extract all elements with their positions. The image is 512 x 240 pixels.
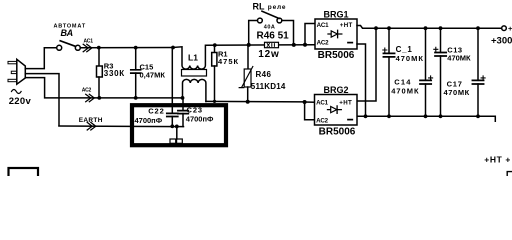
choke L1 core <box>182 70 207 77</box>
svg-text:+HT: +HT <box>508 24 512 33</box>
wire live: plug to switch <box>25 48 56 69</box>
svg-text:220v: 220v <box>9 96 32 107</box>
svg-text:R46 51: R46 51 <box>257 31 290 42</box>
node C22 earth <box>170 124 174 128</box>
choke L1 bottom winding <box>183 79 206 101</box>
varistor R46 511KD14 <box>239 45 286 102</box>
svg-text:330К: 330К <box>104 69 125 78</box>
wire BRG1 minus <box>357 44 366 116</box>
node BRG1 minus to bottom rail <box>364 114 368 118</box>
node C15 top <box>134 46 138 50</box>
svg-text:BRG1: BRG1 <box>323 9 348 19</box>
wire earth: plug to earth rail <box>25 74 59 126</box>
svg-text:R46: R46 <box>256 70 272 79</box>
node R1 top <box>213 43 217 47</box>
svg-text:BRG2: BRG2 <box>323 85 348 95</box>
svg-text:470МК: 470МК <box>391 86 419 95</box>
node riser top <box>374 26 378 30</box>
relay RL contact <box>249 2 294 45</box>
svg-text:4700пФ: 4700пФ <box>135 116 163 125</box>
220v AC source label <box>9 90 32 107</box>
capacitor C22 <box>135 48 178 127</box>
wire live rail left <box>80 47 173 49</box>
EARTH rail <box>59 125 184 128</box>
bridge rectifier BRG1 <box>315 9 357 61</box>
node C15 bottom <box>134 96 138 100</box>
svg-text:+HT +: +HT + <box>484 154 511 164</box>
svg-text:470МК: 470МК <box>444 88 470 97</box>
svg-text:4700пФ: 4700пФ <box>186 114 214 123</box>
node BRG2 input junction <box>303 100 307 104</box>
bridge rectifier BRG2 <box>315 85 358 138</box>
svg-text:470МК: 470МК <box>447 54 471 63</box>
capacitor C13 <box>434 26 471 118</box>
node AC2 connector chevron <box>82 88 95 102</box>
svg-text:40A: 40A <box>264 24 276 30</box>
wire rail to BRG1 AC1 <box>305 24 315 45</box>
node L1/C22 top <box>171 46 175 50</box>
node R3 bottom <box>97 96 101 100</box>
svg-text:511KD14: 511KD14 <box>251 82 286 91</box>
svg-text:C_1: C_1 <box>396 45 413 54</box>
node R1 bottom <box>213 100 216 103</box>
chassis ground <box>170 126 182 143</box>
svg-text:AC2: AC2 <box>316 117 329 124</box>
svg-text:BR5006: BR5006 <box>319 127 356 138</box>
wire BRG1 +HT to +300 rail <box>357 26 502 29</box>
wire BRG2 +HT riser <box>358 28 377 101</box>
svg-text:475К: 475К <box>218 57 239 66</box>
svg-text:C22: C22 <box>148 106 164 115</box>
choke L1 top winding + live rail right <box>173 45 315 69</box>
svg-text:ВА: ВА <box>61 28 74 38</box>
wire to BRG2 AC2 <box>305 102 315 120</box>
resistor R1 <box>212 45 239 101</box>
svg-text:12w: 12w <box>258 49 279 60</box>
node BRG1 AC1 riser <box>303 43 307 47</box>
node R3 top <box>97 46 101 50</box>
wire neutral: plug to AC2 rail <box>25 78 183 98</box>
capacitor C17 <box>444 26 486 118</box>
svg-text:470МК: 470МК <box>396 54 424 63</box>
switch BA (ABTOMAT) <box>54 24 86 51</box>
capacitor C15 <box>131 48 166 98</box>
node ground stub <box>175 125 179 129</box>
svg-text:АС1: АС1 <box>84 39 94 45</box>
node varistor bottom <box>246 100 250 104</box>
node AC1 connector chevron <box>83 39 93 52</box>
capacitor C_1 <box>383 26 424 118</box>
node relay right <box>292 43 296 47</box>
svg-text:+300: +300 <box>491 35 512 46</box>
svg-text:L1: L1 <box>188 53 198 63</box>
svg-text:EARTH: EARTH <box>79 117 103 124</box>
annotation highlight box <box>132 105 226 145</box>
resistor R3 <box>97 48 125 98</box>
svg-text:+HT: +HT <box>340 22 353 29</box>
svg-text:C14: C14 <box>394 77 411 86</box>
+300 output terminal <box>502 26 507 31</box>
svg-text:АС2: АС2 <box>82 88 92 94</box>
svg-text:+HT: +HT <box>339 100 352 107</box>
svg-text:RL: RL <box>253 2 265 12</box>
node L1 bottom / C23 <box>181 96 185 100</box>
capacitor C14 <box>391 26 432 118</box>
wire neutral after choke <box>206 100 305 103</box>
corner fragment bottom right <box>507 172 512 176</box>
svg-text:AC2: AC2 <box>317 40 330 47</box>
bottom rail BRG2 minus <box>358 116 496 121</box>
capacitor C23 <box>178 98 214 127</box>
node EARTH connector chevron <box>79 117 103 130</box>
unknown box bottom left <box>9 168 39 178</box>
AC plug P1 <box>8 59 25 84</box>
wire to BRG2 AC1 <box>305 101 315 103</box>
svg-text:AC1: AC1 <box>317 22 330 29</box>
svg-text:реле: реле <box>268 4 286 11</box>
svg-text:0,47МК: 0,47МК <box>140 71 166 80</box>
node relay left <box>247 43 251 47</box>
fusible resistor R46 51 <box>257 24 290 60</box>
svg-text:AC1: AC1 <box>316 100 329 107</box>
svg-text:BR5006: BR5006 <box>318 50 355 61</box>
